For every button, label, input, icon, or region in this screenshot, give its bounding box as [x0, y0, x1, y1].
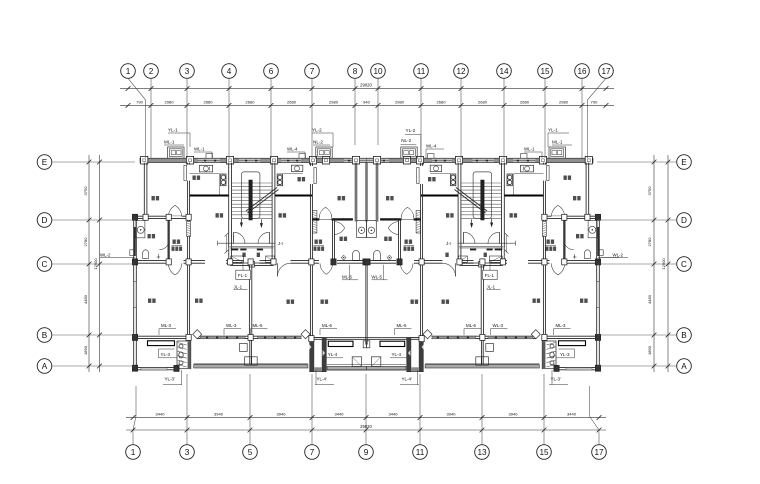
svg-text:2680: 2680: [437, 99, 447, 104]
svg-text:3440: 3440: [335, 412, 345, 417]
left half geometry: [114, 147, 369, 372]
svg-text:2980: 2980: [395, 99, 405, 104]
svg-text:ML-6: ML-6: [322, 323, 333, 328]
svg-text:4: 4: [227, 67, 232, 76]
svg-text:5: 5: [248, 448, 253, 457]
svg-text:2780: 2780: [647, 237, 652, 247]
svg-text:3940: 3940: [214, 412, 224, 417]
svg-text:7: 7: [310, 448, 315, 457]
axis leader lines top: [128, 78, 606, 158]
svg-text:16: 16: [577, 67, 587, 76]
svg-text:940: 940: [363, 99, 370, 104]
svg-text:WL-4: WL-4: [287, 147, 298, 152]
svg-text:WL-2: WL-2: [613, 252, 624, 257]
svg-text:WL-3: WL-3: [226, 323, 237, 328]
svg-text:1890: 1890: [647, 345, 652, 355]
svg-text:17: 17: [601, 67, 611, 76]
svg-text:YL-1: YL-1: [548, 128, 558, 133]
svg-text:8: 8: [353, 67, 358, 76]
svg-text:14: 14: [499, 67, 509, 76]
svg-text:FL-1: FL-1: [238, 273, 248, 278]
svg-text:3750: 3750: [647, 186, 652, 196]
svg-text:YL-4': YL-4': [402, 377, 413, 382]
svg-text:YL-3: YL-3: [161, 352, 171, 357]
axis circles bottom: [126, 445, 607, 460]
svg-text:3: 3: [185, 67, 190, 76]
room label smudges: [148, 176, 588, 304]
svg-text:JL-1: JL-1: [234, 284, 243, 289]
two-line notes: [172, 240, 557, 251]
axis leader lines bottom: [133, 374, 599, 445]
svg-text:WL-1: WL-1: [524, 147, 535, 152]
svg-text:2980: 2980: [165, 99, 175, 104]
svg-text:15: 15: [540, 67, 550, 76]
svg-text:ML-5: ML-5: [342, 275, 353, 280]
svg-text:J-r: J-r: [446, 241, 452, 246]
svg-text:11: 11: [417, 67, 426, 76]
svg-text:7: 7: [310, 67, 315, 76]
svg-text:6: 6: [269, 67, 274, 76]
svg-text:15: 15: [539, 448, 549, 457]
svg-text:YL-2: YL-2: [312, 128, 322, 133]
svg-text:3440: 3440: [567, 412, 577, 417]
axis circles top: [121, 64, 614, 79]
ML-5 WL-5 labels: [342, 265, 388, 280]
axis circles right: [597, 155, 691, 374]
svg-text:WL-3: WL-3: [493, 323, 504, 328]
drain labels above axis B: [159, 323, 571, 335]
svg-text:2780: 2780: [83, 237, 88, 247]
svg-text:WL-4: WL-4: [426, 143, 437, 148]
svg-text:3440: 3440: [156, 412, 166, 417]
svg-text:ML-6: ML-6: [466, 323, 477, 328]
svg-text:D: D: [681, 216, 687, 225]
svg-text:JL-1: JL-1: [487, 284, 496, 289]
svg-text:790: 790: [136, 99, 143, 104]
svg-text:2680: 2680: [246, 99, 256, 104]
bottom dimension lines: [126, 412, 606, 433]
left dimension lines: [83, 155, 102, 372]
svg-text:29020: 29020: [360, 424, 372, 429]
svg-text:C: C: [681, 260, 687, 269]
svg-text:E: E: [42, 158, 48, 167]
svg-text:WL-1: WL-1: [194, 147, 205, 152]
balcony YL labels: [159, 349, 575, 358]
svg-text:C: C: [42, 260, 48, 269]
svg-text:13: 13: [477, 448, 487, 457]
svg-text:1: 1: [126, 67, 131, 76]
svg-text:ML-6: ML-6: [253, 323, 264, 328]
svg-text:3940: 3940: [447, 412, 457, 417]
svg-text:B: B: [42, 331, 48, 340]
roof pipe labels right half: [401, 128, 573, 158]
svg-text:A: A: [681, 362, 687, 371]
svg-text:YL-3': YL-3': [165, 377, 176, 382]
svg-text:29020: 29020: [360, 83, 372, 88]
svg-text:YL-2: YL-2: [406, 128, 416, 133]
svg-text:11: 11: [416, 448, 425, 457]
svg-text:3940: 3940: [509, 412, 519, 417]
svg-text:ML-3: ML-3: [556, 323, 567, 328]
svg-text:3440: 3440: [389, 412, 399, 417]
svg-text:YL-3: YL-3: [560, 352, 570, 357]
svg-text:E: E: [681, 158, 687, 167]
svg-text:2980: 2980: [329, 99, 339, 104]
svg-text:4480: 4480: [83, 294, 88, 304]
svg-text:B: B: [681, 331, 687, 340]
svg-text:17: 17: [594, 448, 604, 457]
top dimension lines: [120, 83, 614, 108]
svg-text:YL-4: YL-4: [392, 352, 402, 357]
svg-text:FL-1: FL-1: [485, 273, 495, 278]
WL-2 labels: [100, 252, 628, 257]
svg-text:3750: 3750: [83, 186, 88, 196]
svg-text:ML-3: ML-3: [161, 323, 172, 328]
svg-text:2: 2: [149, 67, 154, 76]
svg-text:A: A: [42, 362, 48, 371]
svg-text:9: 9: [364, 448, 369, 457]
svg-text:ML-1: ML-1: [552, 140, 563, 145]
svg-text:ML-1: ML-1: [164, 140, 175, 145]
svg-text:WL-5: WL-5: [372, 275, 383, 280]
svg-text:2980: 2980: [559, 99, 569, 104]
svg-text:ML-6: ML-6: [397, 323, 408, 328]
roof pipe labels left half: [164, 128, 333, 158]
svg-text:2680: 2680: [478, 99, 488, 104]
vestibule door smudges: [242, 253, 487, 257]
FL-1 JL-1 labels: [234, 264, 501, 290]
svg-text:12900: 12900: [93, 258, 98, 270]
right half geometry mirrored: [365, 147, 620, 372]
right dimension lines: [647, 155, 670, 372]
svg-text:3: 3: [185, 448, 190, 457]
section labels J: [278, 241, 452, 246]
svg-text:2680: 2680: [204, 99, 214, 104]
svg-text:790: 790: [591, 99, 598, 104]
svg-text:YL-4': YL-4': [317, 377, 328, 382]
svg-text:NL-2: NL-2: [401, 138, 411, 143]
svg-text:12: 12: [456, 67, 466, 76]
svg-text:3940: 3940: [277, 412, 287, 417]
svg-text:10: 10: [373, 67, 383, 76]
svg-text:J-r: J-r: [278, 241, 284, 246]
svg-text:1: 1: [131, 448, 136, 457]
svg-text:D: D: [42, 216, 48, 225]
svg-text:NL-2: NL-2: [313, 140, 323, 145]
svg-text:WL-2: WL-2: [100, 252, 111, 257]
svg-text:YL-1: YL-1: [168, 128, 178, 133]
svg-text:4480: 4480: [647, 294, 652, 304]
svg-text:2680: 2680: [287, 99, 297, 104]
svg-text:1890: 1890: [83, 345, 88, 355]
svg-text:YL-4: YL-4: [328, 352, 338, 357]
axis circles left: [37, 155, 135, 374]
below-grade YL labels: [163, 370, 568, 385]
svg-text:2680: 2680: [520, 99, 530, 104]
svg-text:12900: 12900: [661, 258, 666, 270]
